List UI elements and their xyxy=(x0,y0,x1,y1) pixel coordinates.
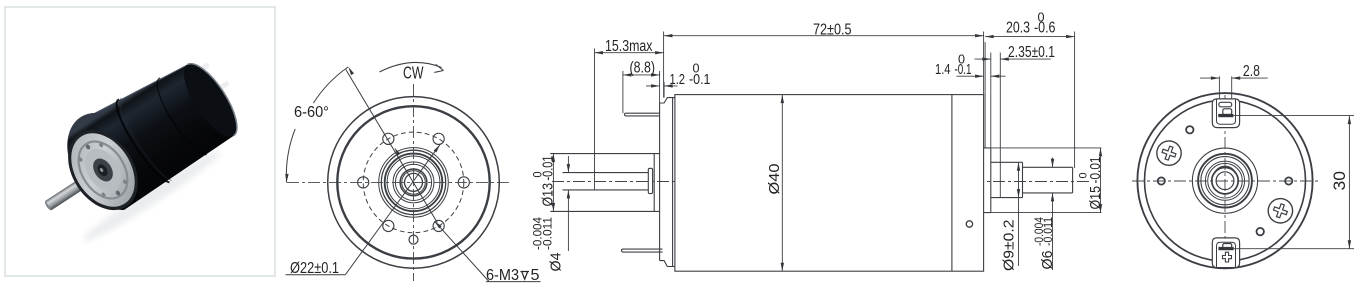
ext line (8.8) left / top prong xyxy=(622,71,624,113)
svg-text:20.3: 20.3 xyxy=(1006,19,1030,36)
svg-text:0: 0 xyxy=(1038,11,1045,25)
front end cap xyxy=(660,98,675,267)
dia13 0/-0.01 rotated xyxy=(532,156,556,207)
ext line rear face 20.3 xyxy=(984,42,986,148)
72 dim line xyxy=(664,35,984,37)
body seam rings xyxy=(109,99,172,187)
inner circle xyxy=(1145,100,1306,261)
bottom terminal tab xyxy=(1212,238,1239,268)
6-M3 leader line xyxy=(435,221,490,281)
dia40 dim line xyxy=(781,95,783,272)
shaft xyxy=(44,200,54,212)
svg-text:Ø9±0.2: Ø9±0.2 xyxy=(1001,220,1018,272)
ext line 2.35 right xyxy=(999,53,1001,163)
svg-text:Ø15: Ø15 xyxy=(1087,186,1104,210)
svg-text:Ø6: Ø6 xyxy=(1039,251,1056,270)
1.2 dim line xyxy=(646,85,678,87)
dia9+-0.2 rotated xyxy=(1001,220,1018,272)
ext line 2.35 left xyxy=(990,53,992,148)
ext lines dia15 xyxy=(991,148,1102,213)
ext line pilot face up xyxy=(659,71,661,103)
arrows: dia13 xyxy=(552,154,555,163)
svg-text:Ø4: Ø4 xyxy=(548,253,565,272)
terminal pins xyxy=(189,67,201,79)
svg-text:5: 5 xyxy=(531,267,540,284)
arrows: dia9 xyxy=(1017,162,1020,171)
30 dim xyxy=(1234,116,1355,249)
arrows: dia15 xyxy=(1099,148,1102,157)
arrows: dia6 xyxy=(1051,159,1054,168)
front view centerline vertical xyxy=(413,84,415,281)
bottom pilot hole xyxy=(409,235,418,244)
svg-text:0: 0 xyxy=(958,52,965,66)
6-M3 leader arrow at lower-right hole xyxy=(433,220,441,228)
face rim circle xyxy=(337,106,489,258)
bottom terminal prong xyxy=(622,249,663,252)
screw lower-right xyxy=(1268,199,1292,223)
60deg arc lower segment xyxy=(286,129,295,183)
top terminal tab xyxy=(1212,99,1239,128)
15.3max dim line xyxy=(595,52,664,54)
svg-text:-0.01: -0.01 xyxy=(1087,157,1104,184)
svg-text:6-60°: 6-60° xyxy=(294,104,329,121)
svg-text:6-M3: 6-M3 xyxy=(486,267,519,284)
svg-text:(8.8): (8.8) xyxy=(630,60,656,77)
motor body xyxy=(50,44,248,222)
dia6 dim line xyxy=(1052,158,1054,271)
ext line 1.2 right xyxy=(663,82,665,98)
rear dia15 ring xyxy=(984,148,991,213)
front face of motor photo xyxy=(54,117,153,223)
ext line front face xyxy=(663,32,665,98)
60deg arc upper segment xyxy=(313,67,348,103)
rear dia9 boss xyxy=(991,162,1023,197)
svg-text:15.3max: 15.3max xyxy=(605,38,653,55)
svg-text:0: 0 xyxy=(693,62,700,76)
dia4 dim line xyxy=(567,156,569,251)
front boss face xyxy=(653,154,655,212)
motor photo xyxy=(16,39,257,245)
arrows: dia4 xyxy=(567,164,570,173)
front cap seam line xyxy=(672,98,674,267)
arrows: (8.8) xyxy=(623,73,632,76)
photo frame box xyxy=(5,7,275,276)
2.8 dim xyxy=(1200,76,1268,99)
hub knurl arcs xyxy=(1215,166,1236,173)
dia22 leader arrow below upper-right hole xyxy=(434,144,442,153)
6-M3 label underline xyxy=(486,281,541,283)
arrows: 15.3max xyxy=(595,51,604,54)
dia40 rotated xyxy=(767,164,783,195)
main body shell xyxy=(675,95,984,272)
motor shadow xyxy=(79,145,225,248)
side centerline xyxy=(552,181,1090,183)
front boss dia13 lines xyxy=(550,154,659,212)
upper small hole xyxy=(1186,126,1193,133)
bolt circle BCD 22.5 (dashed) xyxy=(363,132,464,233)
svg-text:2.8: 2.8 xyxy=(1243,63,1260,80)
arrows: 1.4 xyxy=(975,75,984,78)
svg-text:-0.004: -0.004 xyxy=(533,216,545,250)
arrows: dia40 xyxy=(781,95,784,104)
1.4 dim line xyxy=(957,75,1006,77)
shaft snap ring xyxy=(648,168,652,193)
svg-text:1.2: 1.2 xyxy=(670,71,686,88)
front pilot face xyxy=(659,103,661,261)
outer circle xyxy=(1137,93,1312,268)
left shaft tip face + 15.3 extension xyxy=(594,49,596,190)
dia4 -0.004/-0.011 rotated xyxy=(533,216,565,271)
bolt hole 300deg xyxy=(433,220,444,231)
svg-text:0: 0 xyxy=(532,172,544,178)
bolt hole 120deg xyxy=(383,133,394,144)
rear boss seam xyxy=(999,162,1001,197)
svg-text:Ø22±0.1: Ø22±0.1 xyxy=(290,260,339,277)
arc arrowhead top xyxy=(347,66,354,75)
rear hub ring set (bearing housing) xyxy=(1192,148,1257,213)
hub ring set (front bearing boss) xyxy=(379,148,449,218)
small hole on body xyxy=(966,221,972,227)
arrows: 20.3 xyxy=(985,35,994,38)
ext line shaft end 20.3 xyxy=(1074,32,1076,169)
CW arc with arrow xyxy=(380,62,442,72)
left shaft dia4 xyxy=(563,173,649,190)
dia6 -0.004/-0.011 rotated xyxy=(1034,216,1056,269)
dia13 dim line xyxy=(552,154,554,212)
60deg radial line xyxy=(346,70,438,223)
svg-text:1.4: 1.4 xyxy=(935,61,951,78)
svg-text:CW: CW xyxy=(403,63,424,83)
20.3 dim line xyxy=(985,36,1075,38)
lower small hole xyxy=(1257,228,1264,235)
svg-text:Ø13: Ø13 xyxy=(539,183,556,207)
bolt hole 0deg xyxy=(458,177,469,188)
arrows: 2.35 xyxy=(982,57,991,60)
rear dia15 face xyxy=(990,148,992,213)
screw upper-left xyxy=(1157,141,1181,165)
bolt hole 60deg xyxy=(433,133,444,144)
rear cap seam line xyxy=(951,95,953,272)
bolt hole 240deg xyxy=(383,220,394,231)
front view centerline horizontal xyxy=(287,181,512,183)
right hole xyxy=(1285,177,1292,184)
arc arrowhead bottom xyxy=(285,174,289,183)
svg-text:2.35±0.1: 2.35±0.1 xyxy=(1008,44,1055,61)
svg-text:72±0.5: 72±0.5 xyxy=(813,22,852,39)
rear face cap xyxy=(174,56,246,144)
arrows: 72 xyxy=(664,34,673,37)
svg-text:30: 30 xyxy=(1331,171,1349,191)
dia9 dim line xyxy=(1018,162,1020,266)
arrows: 1.2 xyxy=(651,84,660,87)
6-M3 leader arrow at upper-left hole xyxy=(393,147,400,156)
svg-text:0: 0 xyxy=(1078,173,1090,179)
2.35 dim line xyxy=(975,58,1051,60)
left hole xyxy=(1158,177,1165,184)
bolt hole 180deg xyxy=(358,177,369,188)
top terminal prong xyxy=(624,113,659,116)
dia15 dim line xyxy=(1100,148,1102,213)
outer circle xyxy=(328,97,500,269)
svg-text:Ø40: Ø40 xyxy=(767,164,783,195)
(8.8) dim line xyxy=(623,74,660,76)
rear shaft dia6 xyxy=(1023,167,1073,193)
dia22 label underline xyxy=(286,274,346,276)
svg-text:-0.004: -0.004 xyxy=(1034,216,1046,246)
ext line body rear up xyxy=(983,32,985,95)
dia22 leader line xyxy=(346,145,441,275)
rear centerlines xyxy=(1132,180,1318,182)
dia15 0/-0.01 rotated xyxy=(1078,157,1105,210)
